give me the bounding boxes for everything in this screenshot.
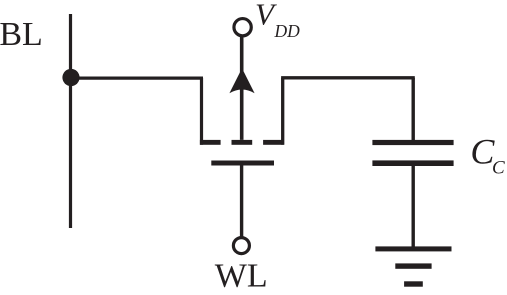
ground symbol bar 3 (bottom, smallest)	[404, 281, 423, 286]
terminal WL (open circle)	[233, 238, 249, 254]
wire: vertical from capacitor to ground	[412, 165, 415, 247]
wire: vertical down to capacitor top plate	[412, 78, 415, 141]
wire: source drop vertical	[200, 78, 203, 145]
power terminal VDD (open circle)	[234, 19, 251, 36]
svg-text:WL: WL	[215, 257, 268, 294]
wire: gate lead vertical to WL	[240, 166, 243, 237]
wire: bit line vertical	[69, 14, 72, 228]
svg-text:DD: DD	[274, 21, 301, 41]
ground symbol bar 2 (middle)	[395, 263, 431, 268]
ground symbol bar 1 (top, widest)	[375, 246, 451, 251]
arrowhead on body lead (pointing up)	[229, 68, 254, 93]
transistor Q1 channel dash left (source segment)	[200, 140, 221, 145]
svg-text:BL: BL	[0, 16, 43, 53]
wire: horizontal from drain to capacitor	[281, 76, 415, 79]
node: junction dot on BL	[62, 69, 79, 86]
wire: body lead vertical to VDD	[240, 37, 244, 140]
capacitor CC bottom plate	[372, 160, 453, 166]
transistor Q1 channel dash middle (body segment)	[232, 140, 253, 145]
svg-text:C: C	[492, 158, 505, 179]
transistor Q1 gate bar	[211, 161, 274, 166]
wire: horizontal from BL dot to transistor source	[71, 76, 204, 79]
wire: drain rise vertical	[281, 78, 284, 145]
capacitor CC top plate	[372, 140, 453, 145]
transistor Q1 channel dash right (drain segment)	[263, 140, 284, 145]
